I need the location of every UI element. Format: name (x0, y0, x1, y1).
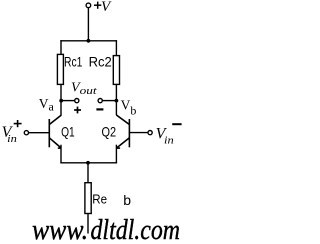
svg-text:in: in (164, 135, 174, 147)
wire Re down (87, 214, 89, 234)
resistor Rc2 (113, 56, 119, 85)
terminal Vout plus (75, 99, 79, 103)
svg-text:Re: Re (92, 191, 107, 206)
wire Vin+ to Q1 base (29, 132, 50, 134)
wire junction to Re (87, 163, 89, 183)
svg-text:www.: www. (32, 215, 88, 244)
wire rail to Rc2 (115, 40, 117, 56)
label + of Vout (74, 107, 81, 114)
wire Va to + output terminal (61, 100, 74, 102)
svg-text:Rc2: Rc2 (89, 54, 112, 70)
junction top rail node (87, 39, 91, 43)
svg-text:Va: Va (39, 96, 55, 113)
resistor Re (85, 183, 91, 214)
wire rail to Rc1 (60, 40, 62, 55)
svg-text:Q1: Q1 (61, 123, 75, 139)
terminal +V (86, 3, 91, 8)
wire +V to rail (87, 8, 89, 41)
wire Q2 base to Vin- (129, 132, 148, 134)
junction emitter rail node (86, 161, 90, 165)
svg-text:dltdl.com: dltdl.com (91, 215, 181, 244)
terminal Vin- (148, 131, 152, 135)
label +V (94, 2, 101, 9)
wire Q2 collector (115, 101, 117, 116)
wire emitter rail (60, 162, 117, 164)
svg-text:b: b (123, 192, 131, 208)
wire Q1 collector (60, 101, 62, 116)
terminal Vin+ (24, 131, 28, 135)
node Vb junction (115, 99, 119, 103)
wire top rail (60, 40, 116, 42)
terminal Vout minus (98, 99, 102, 103)
wire - output terminal to Vb (102, 100, 116, 102)
svg-text:in: in (7, 133, 17, 145)
svg-text:Q2: Q2 (102, 124, 117, 140)
resistor Rc1 (57, 54, 63, 84)
svg-text:Rc1: Rc1 (64, 54, 83, 70)
wire Rc2 to node Vb (115, 84, 117, 100)
wire Rc1 to node Va (60, 84, 62, 100)
node Va junction (59, 99, 63, 103)
transistor Q1 (49, 115, 61, 148)
label - of Vout (96, 108, 103, 110)
wire Q1 emitter down (60, 145, 62, 163)
transistor Q2 (116, 115, 129, 148)
wire Q2 emitter down (115, 145, 117, 163)
